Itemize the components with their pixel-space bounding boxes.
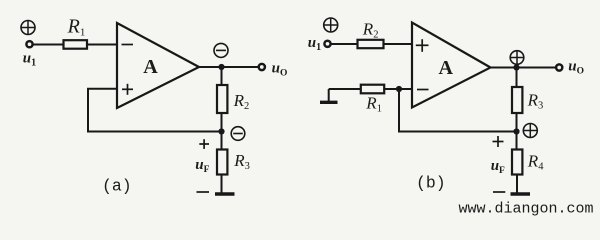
junction inverting input node (b)	[396, 86, 402, 92]
svg-text:(a): (a)	[102, 177, 132, 196]
op-amp (b) minus input marker	[417, 89, 429, 91]
wire R2 to op-amp non-inverting input (b)	[384, 43, 413, 45]
wire R2 to feedback node (a)	[221, 113, 223, 132]
junction output node (b)	[513, 64, 519, 70]
svg-text:A: A	[143, 56, 158, 78]
wire R3 to ground (a)	[221, 175, 223, 194]
output terminal uO (a)	[259, 64, 265, 70]
op-amp (a) plus input marker	[122, 84, 133, 95]
resistor R1 (a)	[64, 40, 88, 49]
plus polarity mark of uF (b)	[493, 136, 504, 147]
polarity marker circled-plus at input of circuit (a)	[21, 21, 35, 35]
op-amp A triangle (b)	[412, 23, 491, 108]
junction feedback node (b)	[513, 128, 519, 134]
feedback wire (a) from divider node to non-inverting input	[88, 89, 222, 132]
wire feedback node to R3 (a)	[221, 132, 223, 150]
ground at R1 input side (b)	[320, 89, 338, 102]
ground (a)	[215, 192, 235, 195]
feedback wire (b) from divider node to inverting input	[399, 89, 517, 132]
input terminal u1 (b)	[324, 41, 330, 47]
ground (b)	[511, 192, 531, 195]
polarity marker circled-plus at feedback node (b)	[523, 124, 537, 138]
polarity marker circled-plus at input of circuit (b)	[324, 18, 338, 32]
wire op-amp output to terminal (b)	[491, 67, 556, 69]
wire R4 to ground (b)	[516, 175, 518, 194]
wire input terminal to R1 (a)	[33, 44, 63, 46]
resistor R1 (b)	[361, 85, 384, 94]
minus polarity mark of uF (b)	[493, 191, 505, 193]
resistor R2 (b)	[358, 40, 384, 48]
svg-text:www.diangon.com: www.diangon.com	[459, 201, 594, 218]
resistor R3 (b)	[512, 87, 522, 113]
polarity marker circled-minus at output node (a)	[214, 43, 228, 57]
input terminal u1 (a)	[26, 41, 32, 47]
wire feedback node to R4 (b)	[516, 132, 518, 150]
polarity marker circled-minus at feedback node (a)	[231, 127, 245, 141]
op-amp (a) minus input marker	[122, 44, 134, 46]
plus polarity mark of uF (a)	[199, 139, 209, 149]
junction output node (a)	[218, 64, 224, 70]
op-amp A triangle (a)	[117, 23, 199, 108]
junction feedback node (a)	[218, 128, 224, 134]
op-amp (b) plus input marker	[416, 39, 429, 52]
resistor R3 (a)	[217, 150, 227, 175]
wire ground to R1 (b)	[329, 88, 361, 90]
wire output node down to R2 (a)	[221, 67, 223, 85]
wire output node down to R3 (b)	[516, 68, 518, 88]
wire R3 to feedback node (b)	[516, 113, 518, 132]
wire op-amp output to terminal (a)	[199, 66, 258, 68]
output terminal uO (b)	[556, 64, 562, 70]
wire R1 to inverting input node (b)	[384, 88, 412, 90]
resistor R2 (a)	[217, 85, 227, 113]
wire R1 to op-amp inverting input (a)	[87, 44, 117, 46]
polarity marker circled-plus at output node (b)	[510, 51, 524, 65]
minus polarity mark of uF (a)	[197, 191, 210, 193]
svg-text:(b): (b)	[416, 174, 446, 193]
svg-text:A: A	[439, 57, 454, 79]
wire input terminal to R2 (b)	[331, 43, 357, 45]
resistor R4 (b)	[512, 150, 522, 175]
